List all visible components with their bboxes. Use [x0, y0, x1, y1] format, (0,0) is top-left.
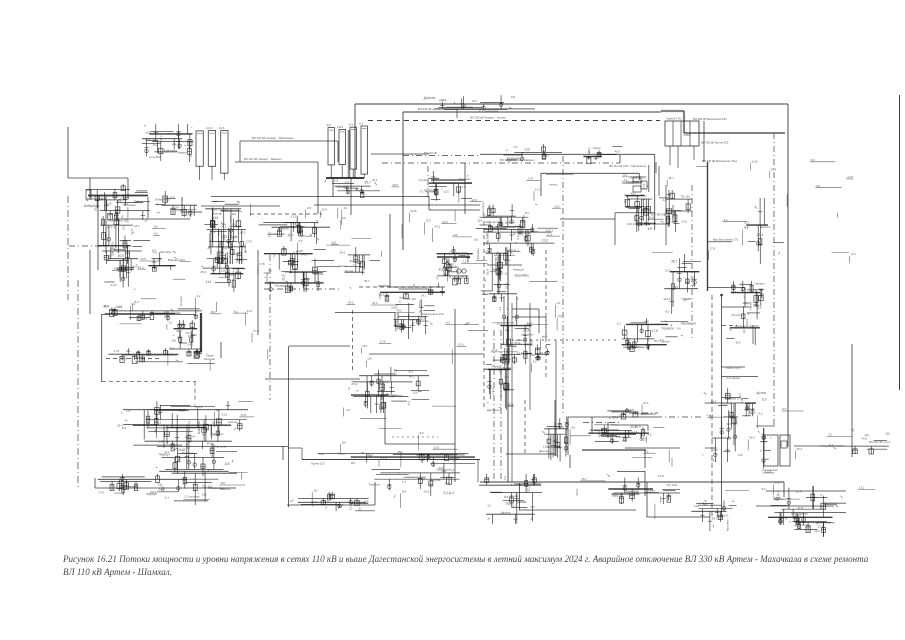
dashed wire: [392, 436, 438, 438]
wire: [118, 219, 120, 253]
svg-text:2х16: 2х16: [649, 215, 656, 219]
substation B4: [259, 215, 330, 244]
svg-text:ПС 110: ПС 110: [666, 483, 677, 487]
substation C1: [104, 246, 139, 290]
svg-text:-24,1: -24,1: [471, 99, 478, 103]
wire: [756, 505, 834, 507]
wiring texture center: [346, 260, 562, 372]
svg-text:-8,3: -8,3: [708, 413, 713, 417]
svg-text:2х16: 2х16: [337, 125, 344, 129]
svg-text:17,8: 17,8: [651, 329, 657, 333]
svg-text:-3,1: -3,1: [495, 252, 500, 256]
svg-text:-12,6: -12,6: [230, 223, 237, 227]
wire: [658, 166, 660, 196]
svg-text:13,2: 13,2: [291, 215, 297, 219]
wire: [614, 213, 616, 245]
cluster wires F5: [756, 425, 775, 427]
svg-text:17,8: 17,8: [760, 449, 766, 453]
svg-text:114: 114: [145, 138, 150, 142]
wire: [89, 178, 91, 198]
corridor bus: [507, 250, 509, 482]
wire: [567, 417, 569, 455]
svg-text:Буйнакск: Буйнакск: [476, 248, 480, 260]
svg-text:Каспийск: Каспийск: [725, 518, 729, 531]
svg-text:13,2: 13,2: [682, 219, 688, 223]
labels top lines: [424, 95, 535, 118]
svg-text:110: 110: [211, 229, 216, 233]
wire: [673, 210, 692, 212]
svg-text:116: 116: [221, 481, 226, 485]
svg-text:116: 116: [367, 357, 372, 361]
bus elements F7: [318, 450, 475, 467]
svg-text:Мах-Восточная 1 Пс: Мах-Восточная 1 Пс: [713, 238, 739, 242]
svg-text:40,5: 40,5: [392, 183, 398, 187]
svg-text:116: 116: [549, 452, 554, 456]
wire: [314, 204, 480, 206]
svg-text:110: 110: [341, 440, 346, 444]
page edge line: [899, 95, 901, 390]
svg-text:Хасавюрт: Хасавюрт: [275, 284, 288, 288]
wire: [554, 400, 556, 456]
svg-text:Ирганай: Ирганай: [301, 234, 312, 238]
svg-text:Т-1: Т-1: [196, 349, 201, 353]
svg-text:Терекли: Терекли: [368, 483, 380, 487]
svg-text:-8,3: -8,3: [348, 123, 353, 127]
svg-text:40,5: 40,5: [118, 254, 124, 258]
svg-text:Артем: Артем: [749, 302, 753, 311]
dash-dot wire: [691, 185, 693, 340]
gray bus: [582, 449, 646, 451]
dash-dot wire: [629, 412, 658, 414]
wire: [332, 178, 334, 197]
svg-text:116: 116: [530, 353, 535, 357]
substation B3: [204, 201, 246, 264]
transformers F5 labels: [758, 428, 778, 475]
svg-text:6,3: 6,3: [553, 422, 557, 427]
svg-text:35,7: 35,7: [511, 504, 517, 508]
wiring texture mid-left: [152, 198, 482, 262]
wire thick gray: [684, 132, 785, 134]
svg-text:6,3: 6,3: [346, 408, 350, 412]
wire: [288, 346, 290, 507]
labels C2: [148, 248, 181, 271]
wire: [555, 340, 557, 456]
svg-text:25,4: 25,4: [703, 500, 707, 506]
svg-text:Чирюрт: Чирюрт: [513, 268, 524, 272]
svg-text:-8,3: -8,3: [230, 243, 234, 249]
svg-text:116: 116: [172, 338, 177, 342]
svg-text:9,6: 9,6: [816, 184, 820, 188]
dashed wire: [524, 400, 526, 455]
svg-text:13,2: 13,2: [711, 400, 717, 404]
svg-text:116: 116: [351, 461, 356, 465]
svg-text:4,2: 4,2: [506, 343, 510, 347]
wire: [638, 173, 640, 180]
svg-text:35,7: 35,7: [362, 344, 368, 348]
svg-text:2х25: 2х25: [424, 490, 430, 494]
svg-text:-12,6: -12,6: [491, 388, 495, 395]
svg-text:25,4: 25,4: [351, 382, 357, 386]
svg-text:17,8: 17,8: [253, 329, 259, 333]
generator circle G2: [462, 269, 466, 273]
svg-text:Т-1: Т-1: [402, 480, 406, 484]
dashed branch: [722, 325, 737, 327]
substation B6: [478, 201, 538, 227]
svg-text:116: 116: [221, 268, 226, 272]
svg-text:-8,3: -8,3: [326, 123, 331, 127]
svg-text:АТ-1: АТ-1: [488, 205, 494, 209]
svg-text:Шамхал: Шамхал: [505, 221, 515, 225]
svg-text:17,8: 17,8: [98, 490, 104, 494]
power plant A4 Chirkey GES box: [665, 117, 699, 169]
svg-text:2х16: 2х16: [529, 339, 533, 346]
svg-text:35,7: 35,7: [337, 503, 343, 507]
svg-text:114: 114: [206, 280, 211, 284]
svg-text:Т-1: Т-1: [498, 406, 502, 411]
svg-text:17,8: 17,8: [240, 413, 246, 417]
svg-text:21,6: 21,6: [665, 269, 671, 273]
svg-text:17,8: 17,8: [380, 340, 386, 344]
svg-text:Уллуби: Уллуби: [278, 227, 289, 231]
svg-text:АТ-1: АТ-1: [802, 523, 808, 527]
svg-text:Уллуби: Уллуби: [179, 296, 183, 307]
wire: [428, 196, 430, 210]
svg-text:Тарки: Тарки: [206, 354, 214, 358]
autotransformer AT-2 box: [780, 435, 790, 466]
svg-text:-24,1: -24,1: [420, 294, 427, 298]
svg-text:40,5: 40,5: [794, 523, 801, 527]
wire: [529, 303, 531, 410]
svg-text:-12,6: -12,6: [813, 529, 820, 533]
wire: [519, 483, 521, 510]
svg-text:Новая: Новая: [682, 297, 692, 301]
wire: [722, 376, 759, 378]
svg-text:Избербаш: Избербаш: [84, 204, 100, 208]
wire: [644, 471, 646, 496]
wire: [335, 312, 395, 314]
svg-text:114: 114: [478, 219, 483, 223]
svg-text:-24,1: -24,1: [347, 301, 354, 305]
dash-dot line: [773, 133, 775, 427]
svg-text:Белиджи: Белиджи: [459, 177, 471, 181]
svg-text:ВЛ 330 кВ Чирюрт - Артем: ВЛ 330 кВ Чирюрт - Артем: [470, 116, 505, 120]
svg-text:Каспийск: Каспийск: [160, 250, 172, 254]
corridor marks E4: [484, 348, 514, 412]
svg-text:25,4: 25,4: [372, 301, 378, 305]
svg-text:2х25: 2х25: [628, 408, 634, 412]
svg-text:110: 110: [694, 504, 699, 508]
svg-text:-24,1: -24,1: [220, 224, 227, 228]
svg-text:Буйнакск: Буйнакск: [164, 149, 178, 153]
svg-text:4,2: 4,2: [556, 301, 560, 305]
junction: [720, 294, 723, 297]
svg-text:13,2: 13,2: [382, 380, 389, 384]
svg-text:-12,6: -12,6: [425, 290, 432, 294]
thick busbar: [200, 313, 202, 352]
frame right border: [787, 104, 789, 447]
svg-text:110: 110: [452, 459, 457, 463]
wire: [464, 163, 466, 214]
svg-text:17,8: 17,8: [114, 349, 120, 353]
svg-text:Т-1: Т-1: [513, 145, 518, 149]
svg-text:Чирюрт: Чирюрт: [634, 214, 638, 224]
svg-text:35,7: 35,7: [581, 477, 587, 481]
svg-text:9,6: 9,6: [342, 216, 346, 220]
wire: [201, 205, 280, 207]
svg-text:21,6: 21,6: [138, 265, 144, 269]
power plant A2 Chiryurt GES: [326, 122, 368, 179]
wire thick gray: [683, 111, 685, 133]
svg-text:-8,3: -8,3: [851, 252, 856, 256]
station F3 boxes: [588, 425, 648, 444]
svg-text:9,6: 9,6: [718, 516, 722, 520]
wire: [647, 425, 649, 431]
labels A5: [583, 146, 622, 164]
svg-text:9,6: 9,6: [738, 393, 742, 398]
svg-text:ВЛ 330 кВ Махачкала 330: ВЛ 330 кВ Махачкала 330: [693, 117, 727, 121]
svg-text:40,5: 40,5: [630, 425, 636, 429]
svg-text:35,7: 35,7: [670, 210, 676, 214]
branch wire: [708, 241, 732, 243]
dash-dot wire: [493, 330, 495, 480]
svg-text:ВЛ 110 кВ Артем - Шамхал.: ВЛ 110 кВ Артем - Шамхал.: [63, 567, 172, 577]
svg-text:40,5: 40,5: [409, 374, 415, 378]
svg-text:4,2: 4,2: [623, 173, 627, 177]
bus ticks A6: [325, 178, 380, 198]
svg-text:6,3: 6,3: [324, 500, 329, 504]
box stack Primorskaya: [609, 164, 647, 198]
labels B9: [659, 190, 692, 232]
svg-text:40,5: 40,5: [397, 309, 403, 313]
svg-text:Каспийск: Каспийск: [522, 333, 535, 337]
svg-text:116,2: 116,2: [187, 420, 191, 427]
svg-text:8,9: 8,9: [511, 95, 515, 99]
svg-text:17,8: 17,8: [847, 175, 853, 179]
svg-text:110: 110: [413, 391, 418, 395]
wire: [568, 416, 656, 418]
svg-text:4,2: 4,2: [533, 360, 537, 364]
dashed wire: [483, 214, 485, 408]
svg-text:Белиджи: Белиджи: [89, 197, 102, 201]
svg-text:25,4: 25,4: [285, 270, 291, 274]
svg-text:9,6: 9,6: [140, 358, 145, 362]
wire: [644, 450, 646, 468]
svg-text:4,2: 4,2: [153, 250, 158, 254]
svg-text:21,6: 21,6: [542, 239, 548, 243]
svg-text:Манас: Манас: [314, 272, 324, 276]
svg-text:25,4: 25,4: [222, 247, 228, 251]
svg-text:С.Стальская: С.Стальская: [184, 494, 200, 498]
svg-text:ВЛ 330 кВ Артем 330: ВЛ 330 кВ Артем 330: [701, 141, 729, 145]
dashed wire: [102, 381, 196, 383]
svg-text:35,7: 35,7: [211, 310, 217, 314]
svg-text:9,6: 9,6: [357, 507, 361, 512]
line labels D1: [103, 296, 202, 321]
corridor labels D5: [497, 296, 535, 364]
svg-text:10,4+j5,2: 10,4+j5,2: [485, 220, 498, 224]
svg-text:-3,1: -3,1: [487, 504, 492, 508]
svg-text:35,7: 35,7: [268, 231, 272, 237]
wire: [97, 196, 99, 270]
svg-text:2х16: 2х16: [105, 201, 112, 205]
dashed wire: [352, 310, 354, 372]
svg-text:8,9: 8,9: [122, 426, 127, 430]
svg-text:17,8: 17,8: [130, 229, 134, 235]
svg-text:Терекли: Терекли: [385, 393, 397, 397]
dash-dot line: [382, 162, 620, 164]
wire: [591, 417, 593, 433]
svg-text:17,8: 17,8: [710, 247, 716, 251]
svg-text:6,3: 6,3: [762, 398, 767, 402]
svg-text:-12,6: -12,6: [331, 179, 338, 183]
wire: [147, 197, 149, 218]
svg-text:С.Стальская: С.Стальская: [125, 207, 129, 223]
wire: [512, 308, 539, 310]
wire: [851, 344, 853, 457]
svg-text:21,6: 21,6: [247, 309, 253, 313]
svg-text:35,7: 35,7: [733, 422, 739, 426]
dash-dot boundary upper: [67, 196, 69, 300]
svg-text:116: 116: [159, 440, 164, 444]
line labels G1: [98, 474, 187, 496]
bus right corridor: [707, 162, 709, 291]
wire: [157, 446, 288, 448]
svg-text:Новая: Новая: [517, 500, 527, 504]
svg-text:25,4: 25,4: [797, 447, 803, 451]
svg-text:115,3: 115,3: [504, 495, 511, 499]
dash-dot wire: [656, 416, 702, 418]
wire: [744, 288, 746, 308]
svg-text:4,2: 4,2: [446, 321, 450, 325]
dash-dot wire: [427, 166, 429, 197]
svg-text:Терекли: Терекли: [662, 326, 674, 330]
wire: [538, 309, 540, 333]
svg-text:Тарки: Тарки: [338, 452, 346, 456]
wire thick gray: [661, 110, 684, 112]
wire: [625, 447, 680, 449]
substation C9: [743, 282, 766, 311]
labels group: [504, 144, 563, 162]
wire: [655, 162, 657, 173]
svg-text:Гергебиль: Гергебиль: [481, 201, 485, 215]
generators C6: [437, 246, 473, 285]
svg-text:3,2-j1,4: 3,2-j1,4: [721, 401, 731, 405]
svg-text:-8,3: -8,3: [117, 199, 122, 203]
small E5: [529, 339, 550, 360]
svg-text:35,7: 35,7: [712, 517, 718, 521]
svg-text:Артем: Артем: [661, 340, 670, 344]
svg-text:-24,1: -24,1: [187, 343, 194, 347]
wire: [647, 482, 710, 517]
svg-text:21,6: 21,6: [282, 274, 286, 280]
svg-text:-24,1: -24,1: [301, 253, 308, 257]
wire: [541, 172, 639, 174]
svg-text:ВЛ 110 кВ Чирюрт - Шамхал: ВЛ 110 кВ Чирюрт - Шамхал: [244, 157, 282, 161]
wire: [67, 127, 69, 178]
wire: [95, 487, 200, 489]
svg-text:40,5: 40,5: [749, 436, 755, 440]
wire: [369, 353, 484, 355]
substation C7: [476, 244, 529, 302]
wire: [118, 218, 191, 220]
substation F8: [368, 463, 460, 498]
svg-text:17,8: 17,8: [393, 369, 397, 375]
svg-text:40,5: 40,5: [631, 192, 637, 196]
svg-text:4,2: 4,2: [647, 433, 651, 437]
wire: [239, 141, 241, 162]
wire: [672, 205, 674, 218]
wire thick gray: [348, 130, 351, 178]
svg-text:25,4: 25,4: [757, 233, 763, 237]
svg-text:ПС 110: ПС 110: [681, 194, 691, 198]
svg-text:-3,1: -3,1: [743, 226, 748, 230]
wire: [766, 490, 846, 492]
svg-text:Чирюрт: Чирюрт: [178, 151, 188, 155]
svg-text:-12,6: -12,6: [380, 456, 387, 460]
svg-text:-12,6: -12,6: [145, 131, 152, 135]
svg-text:Тюбе 1 (АТ): Тюбе 1 (АТ): [726, 366, 741, 370]
svg-text:13,2: 13,2: [185, 331, 191, 335]
svg-text:-8,3: -8,3: [164, 450, 169, 454]
svg-text:35,7: 35,7: [364, 279, 370, 283]
svg-text:114,5: 114,5: [663, 297, 670, 301]
svg-text:25,4: 25,4: [771, 168, 777, 172]
svg-text:13,2: 13,2: [730, 290, 736, 294]
svg-text:8,9: 8,9: [202, 433, 207, 437]
wire: [722, 306, 751, 308]
svg-text:-8,3: -8,3: [735, 340, 741, 344]
svg-text:17,8: 17,8: [797, 506, 803, 510]
corridor F4: [703, 388, 744, 462]
svg-text:Чиркей ГЭС: Чиркей ГЭС: [666, 117, 682, 121]
svg-text:3,2-j1,4: 3,2-j1,4: [628, 430, 638, 434]
svg-text:6,3: 6,3: [180, 321, 184, 325]
svg-text:-3,1: -3,1: [168, 320, 173, 324]
svg-text:110: 110: [313, 488, 318, 492]
svg-text:-24,1: -24,1: [434, 224, 441, 228]
svg-text:116: 116: [738, 453, 743, 457]
svg-text:2х16: 2х16: [150, 490, 157, 494]
svg-text:2х16: 2х16: [222, 208, 229, 212]
wire: [506, 453, 555, 455]
wiring texture left: [114, 257, 273, 371]
wiring texture right: [622, 158, 856, 263]
svg-text:Кочубей: Кочубей: [228, 252, 232, 263]
svg-text:21,6: 21,6: [547, 232, 553, 236]
svg-text:Шамхал: Шамхал: [220, 487, 231, 491]
svg-text:6,3: 6,3: [724, 218, 728, 222]
substation D6: [616, 318, 697, 352]
svg-text:-3,1: -3,1: [618, 494, 624, 498]
bus Makhachkala-330: [326, 177, 364, 179]
substation G6: [762, 486, 846, 525]
svg-text:4,2: 4,2: [197, 294, 201, 298]
svg-text:-3,1: -3,1: [616, 321, 622, 325]
wire: [752, 326, 754, 345]
svg-text:13,2: 13,2: [527, 321, 533, 325]
wire: [200, 487, 236, 489]
svg-text:21,6: 21,6: [643, 401, 649, 405]
svg-text:35,7: 35,7: [212, 420, 218, 424]
wire: [287, 504, 375, 506]
svg-text:ВЛ 110 кВ: ВЛ 110 кВ: [519, 231, 531, 235]
svg-text:Ленинкент: Ленинкент: [123, 203, 137, 207]
bus Makhachkala TPP: [431, 179, 465, 181]
svg-text:Кизляр: Кизляр: [115, 491, 124, 495]
labels F6: [821, 428, 891, 454]
svg-text:4,2: 4,2: [345, 180, 350, 184]
wire: [68, 177, 128, 179]
